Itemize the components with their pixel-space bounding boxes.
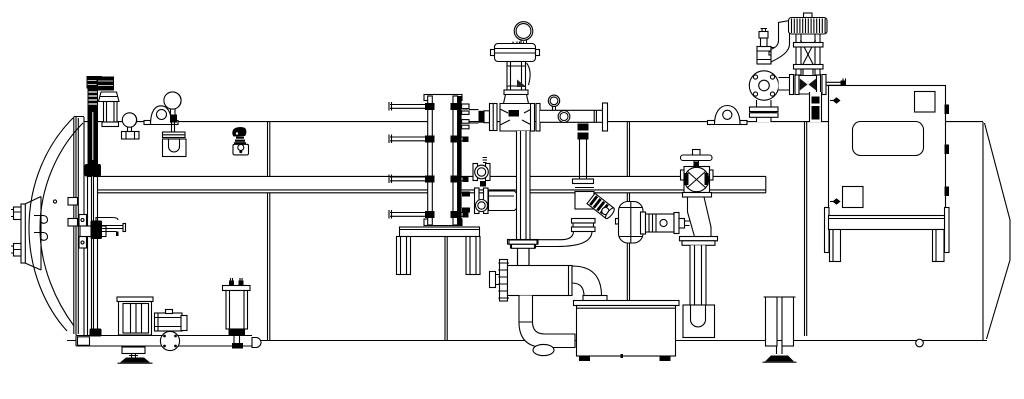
- standpipe left: [88, 177, 92, 336]
- safety valve gooseneck vent: [771, 21, 790, 63]
- separator left stub nozzle: [490, 272, 504, 288]
- condensate horizontal pipe: [536, 231, 592, 247]
- pressure gauge PG1: [122, 113, 140, 139]
- aftercooler tank body: [577, 306, 676, 357]
- control valve CV1 inlet flange: [490, 104, 498, 131]
- chemical feeder filter: [223, 278, 251, 349]
- drain globe valve handwheel: [681, 150, 713, 167]
- panel top right window: [915, 92, 936, 113]
- heat exchanger tie rods: [389, 102, 469, 219]
- heat exchanger support legs: [397, 237, 481, 275]
- vessel right end vertical edge: [982, 122, 984, 340]
- blowdown bold elbow: [519, 322, 575, 356]
- lifting lug L1: [144, 106, 178, 125]
- drain valve lower flange: [683, 193, 712, 198]
- pressure regulator body: [641, 212, 690, 234]
- level controller solenoid box: [87, 76, 103, 89]
- motor junction box: [117, 297, 153, 335]
- panel bottom left window: [843, 187, 864, 208]
- gauge glass column: [88, 88, 99, 176]
- panel rear strips: [825, 208, 950, 253]
- panel latch top: [830, 97, 841, 103]
- nozzle pipe: [469, 110, 479, 123]
- standpipe right: [94, 177, 98, 336]
- standpipe bracket bar: [80, 226, 106, 237]
- manway bolt plates: [11, 207, 21, 256]
- drain drop pipe: [690, 245, 706, 305]
- safety valve body: [757, 29, 777, 65]
- hx circulation pump: [473, 158, 490, 187]
- CV3 diaphragm actuator capsule: [616, 202, 644, 244]
- separator shell: [508, 266, 573, 296]
- control valve CV1 body: [500, 104, 532, 132]
- PG2 siphon flange: [163, 132, 186, 138]
- panel support legs: [830, 230, 945, 262]
- pipe pressure gauge: [548, 95, 559, 110]
- aftercooler tank lid: [574, 301, 680, 306]
- drain flange pair: [680, 237, 718, 246]
- level controller motor box: [97, 77, 115, 91]
- CV1 drop pipe to separator: [517, 131, 531, 240]
- reducer spool: [479, 111, 490, 123]
- hx drain valve cross fitting: [462, 188, 488, 214]
- slant valve lower flange stack: [572, 219, 596, 232]
- adjustable foot B: [763, 297, 797, 362]
- standpipe gauge valve: [91, 218, 119, 240]
- CV2 valve body: [799, 76, 817, 95]
- level controller body cylinder: [102, 102, 119, 127]
- separator bottom outlet pipe: [519, 296, 533, 323]
- control valve CV1 gauge: [514, 22, 533, 44]
- drop line 2 union: [578, 124, 589, 180]
- pump body: [155, 310, 188, 332]
- panel hinge tabs: [945, 105, 950, 197]
- manway davit frame: [25, 197, 41, 271]
- vessel bottom / skid line: [67, 340, 987, 342]
- weld seam 1: [268, 122, 270, 340]
- drain seal cup: [683, 305, 715, 338]
- vessel right cone head: [985, 123, 1011, 339]
- control valve CV1 actuator: [491, 42, 540, 62]
- heat exchanger rod nuts: [425, 103, 469, 218]
- pressure gauge PG2: [164, 92, 181, 132]
- hx outlet pipe stub with break: [489, 191, 525, 211]
- vessel shell top line: [84, 121, 983, 123]
- gauge glass bottom valve: [85, 164, 102, 177]
- slant rotary actuator: [587, 193, 616, 219]
- nozzle bolt studs: [462, 104, 469, 129]
- standpipe drain valve: [90, 329, 102, 337]
- manway davit hooks: [34, 216, 48, 241]
- separator top flange: [509, 240, 537, 266]
- heat exchanger right frame: [453, 96, 458, 225]
- separator right elbow down: [572, 266, 607, 302]
- safety valve riser flanges: [750, 107, 779, 117]
- panel latch bottom: [830, 198, 841, 204]
- heat exchanger top plate: [424, 95, 462, 101]
- vessel left head outer curve: [29, 116, 75, 331]
- adjustable foot A: [118, 347, 153, 363]
- manway cover plate: [21, 204, 25, 263]
- standpipe valve outlet stubs: [102, 224, 126, 237]
- heat exchanger follower plate: [458, 96, 462, 225]
- head seam clamps: [68, 198, 78, 206]
- control panel box: [829, 86, 946, 217]
- slant actuator valve body: [575, 184, 594, 210]
- PG2 siphon pot: [163, 139, 187, 157]
- CV2 outlet flanges: [817, 75, 827, 95]
- lifting lug L2: [708, 106, 748, 125]
- vent valve on shell: [232, 127, 248, 155]
- drain globe valve body: [681, 162, 714, 193]
- slant actuator valve flange: [573, 179, 594, 184]
- drop pipe flange: [508, 240, 539, 267]
- CV2 inlet flanges: [790, 75, 800, 95]
- bottom suction pipe: [76, 336, 261, 348]
- safety valve riser pipe: [757, 100, 772, 122]
- CV2 finned actuator: [789, 13, 828, 34]
- head tangent lines: [74, 116, 84, 340]
- level controller bell flange: [99, 92, 120, 102]
- safety valve outlet flange face: [749, 71, 778, 100]
- steam outlet pipe: [540, 103, 608, 131]
- weld seam 3: [627, 122, 629, 340]
- heat exchanger plate pack: [428, 96, 457, 225]
- long horizontal pipe band: [94, 176, 766, 192]
- separator main flange: [498, 260, 509, 302]
- panel louver: [853, 122, 924, 156]
- CV2 yoke: [794, 34, 824, 76]
- vessel left head inner curve: [40, 123, 83, 326]
- vessel bottom drain bump: [916, 339, 924, 347]
- control valve CV1 yoke: [507, 62, 530, 91]
- pipe ball valve: [558, 111, 570, 123]
- heat exchanger left frame: [428, 96, 433, 225]
- heat exchanger support bar: [400, 227, 480, 237]
- CV2 outlet stub with bleed valve: [826, 79, 846, 87]
- weld seam 2: [445, 237, 447, 340]
- panel support bracket bar: [829, 216, 945, 230]
- standpipe bracket plates: [79, 215, 87, 249]
- heat exchanger bottom plate: [424, 219, 462, 226]
- head nozzle dot: [53, 200, 56, 203]
- control valve CV1 bonnet: [504, 90, 529, 104]
- weld seam 4: [805, 122, 807, 336]
- CV2 drop pipe into vessel: [810, 92, 822, 122]
- control valve CV2 pipe left segment: [779, 78, 791, 91]
- tank feet: [579, 354, 671, 361]
- pump suction flange: [160, 331, 179, 350]
- drain offset pipe: [688, 197, 712, 237]
- control valve CV1 outlet flanges: [531, 104, 541, 132]
